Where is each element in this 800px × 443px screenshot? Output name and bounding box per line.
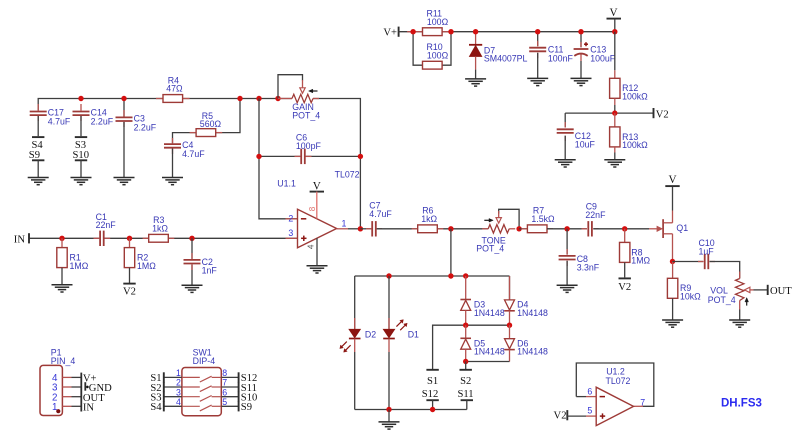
- svg-text:1MΩ: 1MΩ: [631, 256, 650, 266]
- resistor R13: [614, 113, 616, 127]
- pin1 marker: [56, 409, 60, 413]
- port S2: [460, 369, 472, 371]
- svg-text:22nF: 22nF: [96, 220, 117, 230]
- junction: [463, 273, 468, 278]
- capacitor C11: [537, 32, 539, 47]
- svg-text:4.7uF: 4.7uF: [48, 117, 71, 127]
- svg-text:4: 4: [176, 397, 181, 407]
- junction: [256, 154, 261, 159]
- switch pole 3-6: [164, 396, 182, 398]
- capacitor C17: [37, 104, 39, 111]
- port S10: [238, 392, 240, 402]
- wire: [360, 228, 371, 230]
- ground: [571, 77, 592, 79]
- LED D1 arrows: [396, 321, 401, 326]
- svg-text:2: 2: [176, 378, 181, 388]
- wire: [593, 228, 649, 230]
- svg-text:100pF: 100pF: [296, 141, 322, 151]
- capacitor C6: [295, 155, 301, 157]
- resistor R1: [59, 236, 64, 241]
- svg-text:100kΩ: 100kΩ: [622, 140, 648, 150]
- svg-text:4: 4: [306, 244, 315, 249]
- junction: [612, 29, 617, 34]
- wire: [259, 155, 300, 157]
- junction: [463, 323, 468, 328]
- svg-text:1N4148: 1N4148: [474, 308, 505, 318]
- LED D1: [388, 276, 390, 329]
- svg-text:22nF: 22nF: [585, 210, 606, 220]
- svg-text:10kΩ: 10kΩ: [680, 292, 701, 302]
- junction: [612, 110, 617, 115]
- svg-text:V2: V2: [123, 287, 136, 298]
- junction: [358, 154, 363, 159]
- svg-text:V2: V2: [618, 282, 631, 293]
- wire: [466, 400, 468, 409]
- svg-text:1N4148: 1N4148: [517, 308, 548, 318]
- svg-text:V: V: [609, 7, 617, 19]
- junction: [564, 226, 569, 231]
- wiper: [748, 289, 753, 291]
- svg-text:SM4007PL: SM4007PL: [484, 54, 528, 64]
- svg-text:S9: S9: [241, 402, 252, 413]
- svg-text:2.2uF: 2.2uF: [91, 117, 114, 127]
- svg-text:10uF: 10uF: [575, 139, 596, 149]
- port OUT: [767, 285, 769, 295]
- op-amp U1.1: [286, 218, 298, 220]
- wiper direction arrow: [312, 90, 317, 92]
- capacitor C1: [94, 237, 100, 239]
- capacitor C3: [123, 99, 125, 117]
- svg-text:VOL: VOL: [710, 286, 728, 296]
- wire: [38, 99, 292, 111]
- svg-text:8: 8: [222, 368, 227, 378]
- svg-text:POT_4: POT_4: [292, 110, 320, 120]
- junction: [430, 407, 435, 412]
- svg-text:DH.FS3: DH.FS3: [721, 398, 762, 410]
- capacitor C2: [189, 236, 194, 241]
- svg-text:1.5kΩ: 1.5kΩ: [531, 214, 555, 224]
- wire: [567, 415, 586, 417]
- svg-text:100kΩ: 100kΩ: [622, 92, 648, 102]
- svg-text:D2: D2: [365, 329, 376, 339]
- svg-text:1kΩ: 1kΩ: [152, 223, 168, 233]
- port V2: [653, 108, 655, 118]
- port S1: [426, 369, 438, 371]
- junction: [473, 29, 478, 34]
- ground: [662, 319, 683, 321]
- svg-text:POT_4: POT_4: [476, 244, 504, 254]
- wire: [547, 228, 587, 230]
- svg-text:V: V: [668, 174, 676, 186]
- wire: [172, 149, 174, 178]
- junction: [448, 29, 453, 34]
- svg-text:POT_4: POT_4: [708, 295, 736, 305]
- wire: [123, 122, 125, 178]
- wire V2 row: [565, 112, 653, 114]
- svg-text:S11: S11: [457, 389, 473, 400]
- svg-text:5: 5: [222, 397, 227, 407]
- svg-text:1N4148: 1N4148: [474, 347, 505, 357]
- svg-text:5: 5: [587, 406, 592, 416]
- wire power rail: [399, 31, 615, 33]
- svg-text:S12: S12: [422, 389, 439, 400]
- ground: [71, 177, 92, 179]
- svg-text:4.7uF: 4.7uF: [369, 209, 392, 219]
- wire mid rail: [433, 325, 510, 369]
- svg-text:V2: V2: [554, 410, 567, 421]
- potentiometer VOL POT_4: [739, 272, 741, 279]
- svg-text:6: 6: [222, 387, 227, 397]
- svg-text:6: 6: [587, 387, 592, 397]
- resistor R10: [423, 61, 443, 69]
- wire: [499, 209, 519, 229]
- svg-text:S10: S10: [73, 150, 90, 161]
- svg-text:100nF: 100nF: [548, 53, 574, 63]
- svg-text:1N4148: 1N4148: [517, 347, 548, 357]
- junction: [358, 226, 363, 231]
- ground: [555, 159, 576, 161]
- wire: [672, 298, 674, 320]
- switch pole 4-5: [164, 405, 182, 407]
- wire: [413, 32, 451, 65]
- resistor R9: [672, 262, 674, 279]
- svg-text:V2: V2: [656, 109, 669, 120]
- junction: [275, 96, 280, 101]
- capacitor C10: [704, 254, 706, 269]
- diode D7: [475, 32, 477, 45]
- wire: [519, 228, 527, 230]
- ground: [307, 265, 328, 267]
- svg-text:2.2uF: 2.2uF: [134, 122, 157, 132]
- resistor R2: [127, 236, 132, 241]
- diode D5: [465, 325, 467, 338]
- junction: [448, 273, 453, 278]
- port S2: [163, 382, 165, 392]
- svg-text:S1: S1: [427, 376, 438, 387]
- port S11: [238, 382, 240, 392]
- port GND: [84, 382, 86, 391]
- junction: [535, 29, 540, 34]
- ground: [729, 319, 750, 321]
- svg-text:OUT: OUT: [770, 286, 792, 297]
- wire: [129, 268, 131, 284]
- wire: [37, 160, 39, 177]
- svg-text:1kΩ: 1kΩ: [421, 214, 437, 224]
- capacitor C9: [587, 221, 589, 236]
- wire: [465, 362, 467, 370]
- ground: [379, 421, 400, 423]
- svg-text:TL072: TL072: [606, 376, 631, 386]
- wiper direction arrow: [746, 301, 748, 305]
- svg-text:U1.1: U1.1: [277, 178, 296, 188]
- svg-text:47Ω: 47Ω: [166, 84, 183, 94]
- svg-text:3: 3: [288, 228, 293, 238]
- resistor R11: [407, 31, 422, 33]
- wire: [80, 160, 82, 177]
- junction: [256, 96, 261, 101]
- wire: [624, 262, 626, 277]
- wire feedback: [576, 363, 654, 406]
- capacitor C14: [80, 104, 82, 111]
- op-amp U1.2: [576, 396, 586, 398]
- ground: [114, 177, 135, 179]
- resistor R12: [614, 32, 616, 71]
- svg-text:D1: D1: [408, 329, 419, 339]
- ground: [604, 159, 625, 161]
- resistor R4: [156, 98, 163, 100]
- capacitor C8: [566, 229, 568, 255]
- port bar: [80, 373, 82, 412]
- wire: [672, 186, 674, 210]
- svg-text:S4: S4: [150, 402, 162, 413]
- transistor Q1: [649, 228, 657, 230]
- svg-text:3: 3: [176, 387, 181, 397]
- port S3: [75, 136, 87, 138]
- port S3: [163, 392, 165, 402]
- junction: [578, 29, 583, 34]
- junction: [622, 226, 627, 231]
- junction: [463, 359, 468, 364]
- ground: [52, 284, 73, 286]
- wire: [37, 116, 39, 136]
- junction: [386, 407, 391, 412]
- svg-text:V+: V+: [383, 28, 397, 39]
- junction: [448, 226, 453, 231]
- wire: [313, 99, 360, 229]
- wire: [173, 99, 241, 144]
- junction: [507, 323, 512, 328]
- wire: [450, 229, 452, 276]
- diode D6: [509, 325, 511, 338]
- svg-text:Q1: Q1: [676, 223, 688, 233]
- junction: [78, 96, 83, 101]
- junction: [237, 96, 242, 101]
- svg-text:1nF: 1nF: [202, 266, 218, 276]
- pin 4 wire: [316, 238, 318, 266]
- wire: [432, 400, 434, 409]
- svg-text:3.3nF: 3.3nF: [577, 262, 600, 272]
- wire diode rail: [355, 275, 510, 277]
- port V2: [619, 277, 631, 279]
- svg-text:1: 1: [342, 219, 347, 229]
- resistor R6: [412, 228, 418, 230]
- junction: [670, 259, 675, 264]
- svg-text:S9: S9: [29, 150, 40, 161]
- svg-text:100uF: 100uF: [590, 53, 616, 63]
- wire bottom rail: [355, 409, 467, 411]
- wire: [377, 228, 489, 230]
- junction: [386, 273, 391, 278]
- ground: [527, 77, 548, 79]
- wire: [673, 261, 704, 263]
- LED D2: [354, 276, 356, 329]
- capacitor C12: [564, 113, 566, 127]
- LED D2 arrows: [342, 342, 347, 347]
- svg-text:100Ω: 100Ω: [427, 50, 449, 60]
- wire: [80, 116, 82, 136]
- svg-text:1: 1: [176, 368, 181, 378]
- resistor R3: [143, 237, 149, 239]
- potentiometer GAIN POT_4: [278, 98, 292, 100]
- potentiometer TONE POT_4: [482, 228, 488, 230]
- wiper direction arrow: [484, 219, 489, 221]
- port S4: [163, 401, 165, 411]
- resistor R8: [624, 229, 626, 243]
- port S12: [238, 372, 240, 382]
- switch pole 2-7: [164, 386, 182, 388]
- svg-text:1MΩ: 1MΩ: [137, 261, 156, 271]
- resistor R5: [190, 132, 197, 134]
- wire IN row: [29, 237, 99, 239]
- svg-text:8: 8: [308, 206, 317, 211]
- wire: [466, 361, 510, 363]
- wire: [388, 410, 390, 422]
- capacitor C7: [371, 221, 373, 236]
- capacitor C4: [172, 138, 174, 143]
- ground: [557, 284, 578, 286]
- svg-text:1MΩ: 1MΩ: [70, 261, 89, 271]
- svg-text:S2: S2: [460, 376, 471, 387]
- svg-text:DIP-4: DIP-4: [193, 356, 216, 366]
- wire: [614, 19, 616, 32]
- diode D4: [509, 276, 511, 300]
- ground: [465, 78, 486, 80]
- svg-text:TL072: TL072: [335, 170, 360, 180]
- svg-text:560Ω: 560Ω: [200, 119, 222, 129]
- svg-text:7: 7: [222, 378, 227, 388]
- svg-text:2: 2: [288, 213, 293, 223]
- port S4: [32, 136, 44, 138]
- svg-text:4.7uF: 4.7uF: [182, 149, 205, 159]
- svg-text:7: 7: [640, 397, 645, 407]
- ground: [162, 177, 183, 179]
- wire: [306, 155, 361, 157]
- capacitor C13: [580, 32, 582, 48]
- wire: [61, 268, 63, 285]
- svg-text:100Ω: 100Ω: [427, 17, 449, 27]
- wire: [710, 262, 740, 279]
- ground: [28, 177, 49, 179]
- resistor R7: [521, 228, 527, 230]
- junction: [410, 29, 415, 34]
- svg-text:1uF: 1uF: [699, 247, 715, 257]
- diode D3: [465, 276, 467, 299]
- junction: [121, 96, 126, 101]
- port V2: [123, 283, 135, 285]
- port S1: [163, 372, 165, 382]
- svg-text:IN: IN: [14, 234, 26, 245]
- switch pole 1-8: [164, 376, 182, 378]
- wire: [278, 75, 303, 99]
- svg-text:IN: IN: [83, 403, 95, 414]
- ground: [182, 284, 203, 286]
- junction: [516, 226, 521, 231]
- wire: [259, 99, 298, 219]
- svg-text:PIN_4: PIN_4: [51, 356, 76, 366]
- port S9: [238, 401, 240, 411]
- wire output: [337, 228, 348, 230]
